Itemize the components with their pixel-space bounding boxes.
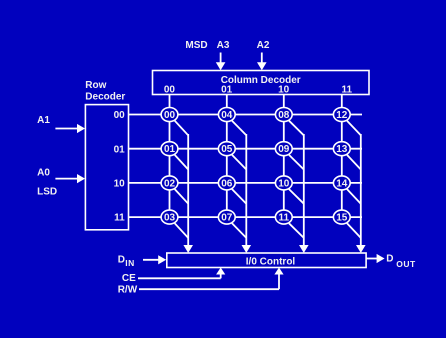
svg-text:A1: A1 [37, 115, 50, 126]
wire cell 11 to data line [289, 223, 304, 238]
I/O control box [167, 253, 366, 268]
wire cell 03 to data line [175, 223, 189, 238]
wire R/W into I/O control [139, 268, 284, 290]
wire cell 05 to data line [232, 155, 246, 170]
svg-text:09: 09 [278, 144, 290, 155]
label D_OUT [386, 254, 416, 269]
arrow D_IN into I/O control [143, 255, 166, 264]
wire cell 06 to data line [232, 189, 246, 204]
wire data line column 00 into I/O control [183, 134, 193, 253]
svg-text:14: 14 [336, 178, 348, 189]
svg-text:R/W: R/W [118, 285, 138, 296]
memory cell 11 [275, 210, 292, 224]
memory cell 06 [218, 176, 235, 190]
svg-text:07: 07 [221, 213, 233, 224]
svg-text:A0: A0 [37, 167, 50, 178]
memory cell 04 [218, 108, 235, 122]
svg-text:10: 10 [278, 178, 290, 189]
wire column select line 01 [226, 95, 228, 218]
svg-text:12: 12 [336, 110, 348, 121]
memory cell 01 [161, 142, 178, 156]
memory cell 14 [333, 176, 350, 190]
wire cell 02 to data line [175, 189, 189, 204]
memory cell 05 [218, 142, 235, 156]
wire data line column 11 into I/O control [356, 134, 366, 253]
svg-text:D: D [118, 254, 125, 265]
arrow I/O control to D_OUT [366, 254, 384, 263]
wire cell 04 to data line [232, 121, 246, 136]
wire cell 07 to data line [232, 223, 246, 238]
svg-text:11: 11 [279, 213, 290, 224]
wire cell 12 to data line [347, 121, 361, 136]
svg-text:01: 01 [221, 85, 233, 96]
svg-text:00: 00 [114, 110, 126, 121]
svg-text:06: 06 [221, 178, 233, 189]
wire column select line 00 [169, 95, 171, 218]
svg-text:Row: Row [85, 80, 106, 91]
wire word line row 00 [129, 114, 363, 116]
svg-text:LSD: LSD [37, 187, 57, 198]
svg-text:01: 01 [114, 144, 126, 155]
memory cell 10 [275, 176, 292, 190]
memory cell 15 [333, 210, 350, 224]
svg-text:04: 04 [221, 110, 233, 121]
svg-text:11: 11 [342, 85, 353, 96]
svg-text:D: D [386, 254, 393, 265]
wire cell 15 to data line [347, 223, 361, 238]
label D_IN [118, 254, 135, 268]
wire column select line 11 [341, 95, 343, 218]
wire cell 09 to data line [289, 155, 304, 170]
svg-text:A2: A2 [257, 40, 270, 51]
memory cell 08 [275, 108, 292, 122]
row decoder title [85, 80, 125, 103]
svg-text:10: 10 [278, 85, 290, 96]
wire word line row 11 [129, 216, 363, 218]
svg-text:00: 00 [164, 85, 176, 96]
arrow A3 into column decoder [216, 53, 226, 71]
wire word line row 10 [129, 182, 363, 184]
memory cell 02 [161, 176, 178, 190]
wire cell 01 to data line [175, 155, 189, 170]
arrow A2 into column decoder [257, 53, 267, 71]
wire data line column 10 into I/O control [299, 134, 309, 253]
svg-text:CE: CE [122, 273, 136, 284]
wire cell 14 to data line [347, 189, 361, 204]
svg-text:10: 10 [114, 179, 126, 190]
memory cell 00 [161, 108, 178, 122]
memory cell 03 [161, 210, 178, 224]
memory cell 13 [333, 142, 350, 156]
wire word line row 01 [129, 148, 363, 150]
svg-text:Decoder: Decoder [85, 92, 125, 103]
memory cell 12 [333, 108, 350, 122]
wire column select line 10 [283, 95, 285, 218]
svg-text:02: 02 [164, 178, 176, 189]
arrow A1 into row decoder [55, 124, 85, 133]
svg-text:13: 13 [336, 144, 348, 155]
svg-text:08: 08 [278, 110, 290, 121]
svg-text:01: 01 [164, 144, 176, 155]
svg-text:IN: IN [125, 258, 135, 268]
wire cell 10 to data line [289, 189, 304, 204]
wire CE into I/O control [138, 268, 225, 279]
svg-text:15: 15 [336, 213, 348, 224]
svg-text:11: 11 [114, 213, 125, 224]
row decoder box [85, 105, 128, 230]
wire cell 13 to data line [347, 155, 361, 170]
svg-text:03: 03 [164, 213, 176, 224]
memory cell 09 [275, 142, 292, 156]
memory cell 07 [218, 210, 235, 224]
wire cell 00 to data line [175, 121, 189, 136]
svg-text:00: 00 [164, 110, 176, 121]
arrow A0 into row decoder [55, 174, 85, 183]
column decoder box [153, 71, 370, 95]
svg-text:A3: A3 [217, 40, 230, 51]
svg-text:MSD: MSD [185, 40, 207, 51]
svg-text:I/0 Control: I/0 Control [246, 256, 296, 267]
wire cell 08 to data line [289, 121, 304, 136]
wire data line column 01 into I/O control [242, 134, 252, 253]
svg-text:05: 05 [221, 144, 233, 155]
svg-text:OUT: OUT [396, 259, 416, 269]
